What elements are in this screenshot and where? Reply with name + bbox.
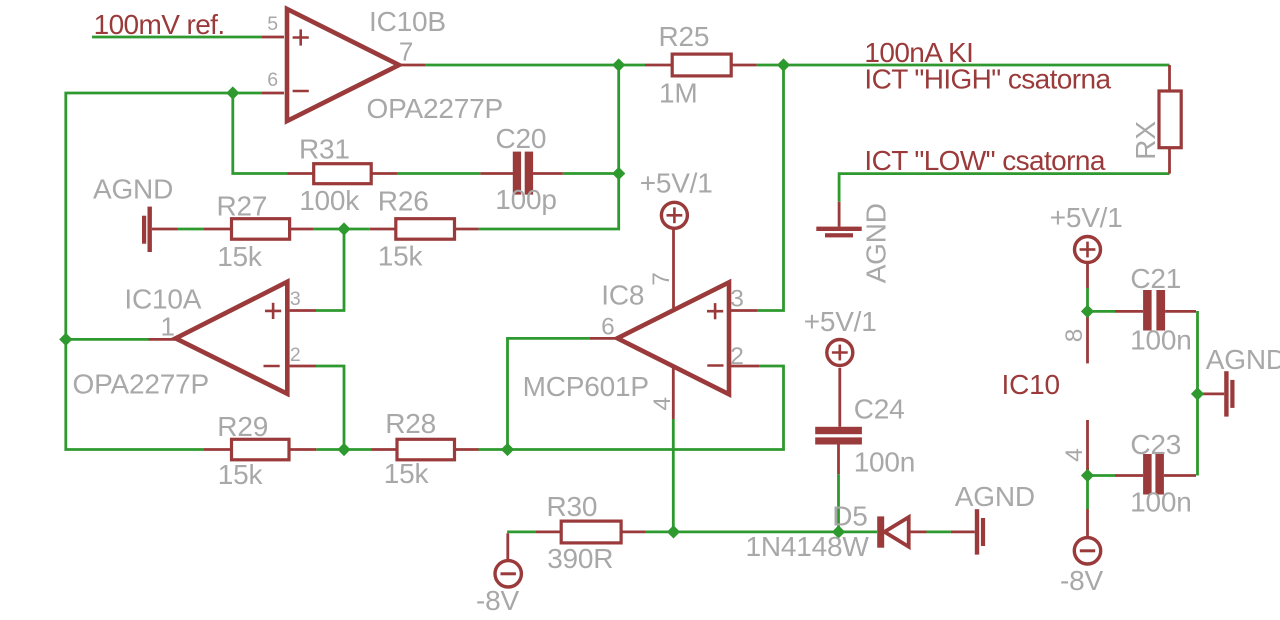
svg-text:R30: R30 bbox=[547, 491, 598, 522]
svg-text:4: 4 bbox=[649, 397, 676, 411]
svg-text:ICT "LOW" csatorna: ICT "LOW" csatorna bbox=[864, 145, 1105, 176]
svg-text:AGND: AGND bbox=[861, 203, 892, 283]
svg-text:-8V: -8V bbox=[476, 585, 519, 616]
svg-text:5: 5 bbox=[267, 13, 278, 35]
svg-text:8: 8 bbox=[1061, 329, 1088, 343]
svg-text:IC10B: IC10B bbox=[369, 6, 446, 37]
svg-text:+5V/1: +5V/1 bbox=[1050, 202, 1123, 233]
svg-text:R27: R27 bbox=[217, 191, 268, 222]
svg-text:2: 2 bbox=[290, 344, 301, 366]
svg-text:AGND: AGND bbox=[93, 174, 173, 205]
svg-text:6: 6 bbox=[267, 69, 278, 91]
svg-text:15k: 15k bbox=[218, 459, 264, 490]
svg-text:1M: 1M bbox=[659, 78, 698, 109]
svg-text:C24: C24 bbox=[854, 394, 905, 425]
svg-text:390R: 390R bbox=[547, 543, 613, 574]
svg-text:-8V: -8V bbox=[1060, 565, 1103, 596]
svg-text:R29: R29 bbox=[217, 411, 268, 442]
svg-text:R31: R31 bbox=[299, 134, 350, 165]
svg-text:OPA2277P: OPA2277P bbox=[73, 369, 209, 400]
svg-text:4: 4 bbox=[1061, 448, 1088, 462]
svg-text:C21: C21 bbox=[1130, 263, 1181, 294]
svg-text:6: 6 bbox=[601, 314, 615, 341]
svg-text:100mV ref.: 100mV ref. bbox=[94, 9, 225, 40]
svg-text:100p: 100p bbox=[495, 184, 557, 215]
svg-text:OPA2277P: OPA2277P bbox=[367, 93, 503, 124]
svg-text:IC10A: IC10A bbox=[124, 284, 201, 315]
svg-text:3: 3 bbox=[730, 286, 744, 313]
svg-text:15k: 15k bbox=[384, 458, 430, 489]
svg-text:1: 1 bbox=[161, 311, 175, 341]
svg-text:MCP601P: MCP601P bbox=[523, 371, 649, 402]
svg-text:7: 7 bbox=[648, 272, 675, 286]
svg-text:D5: D5 bbox=[832, 500, 867, 531]
svg-text:RX: RX bbox=[1130, 121, 1161, 160]
svg-text:15k: 15k bbox=[217, 241, 263, 272]
svg-text:R28: R28 bbox=[385, 408, 436, 439]
svg-text:R26: R26 bbox=[378, 186, 429, 217]
svg-text:3: 3 bbox=[290, 288, 301, 310]
svg-text:IC8: IC8 bbox=[601, 279, 644, 310]
svg-text:1N4148W: 1N4148W bbox=[746, 531, 870, 562]
svg-text:AGND: AGND bbox=[1206, 344, 1280, 375]
svg-text:+5V/1: +5V/1 bbox=[804, 306, 877, 337]
svg-text:+5V/1: +5V/1 bbox=[640, 168, 713, 199]
svg-text:ICT "HIGH" csatorna: ICT "HIGH" csatorna bbox=[864, 64, 1111, 95]
svg-text:R25: R25 bbox=[659, 21, 710, 52]
svg-text:IC10: IC10 bbox=[1002, 369, 1060, 400]
svg-text:7: 7 bbox=[399, 37, 413, 67]
svg-text:100n: 100n bbox=[1130, 487, 1192, 518]
svg-text:100n: 100n bbox=[854, 447, 916, 478]
svg-text:AGND: AGND bbox=[955, 481, 1035, 512]
svg-text:C23: C23 bbox=[1130, 429, 1181, 460]
svg-text:100n: 100n bbox=[1130, 325, 1192, 356]
svg-text:2: 2 bbox=[730, 343, 744, 370]
svg-text:15k: 15k bbox=[378, 241, 424, 272]
svg-text:C20: C20 bbox=[496, 123, 547, 154]
svg-text:100k: 100k bbox=[299, 185, 360, 216]
